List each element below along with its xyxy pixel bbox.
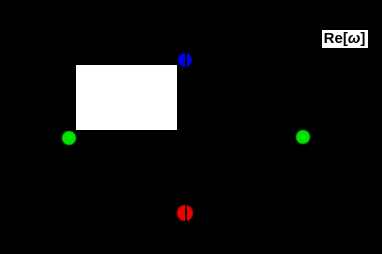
pole red (lower branch point) <box>177 205 193 221</box>
branch cut line (vertical black axis through blue and red poles) <box>185 0 187 254</box>
pole blue (upper branch point) <box>178 53 192 67</box>
axis label Re[omega] <box>322 30 368 48</box>
pole green left <box>62 131 76 145</box>
white region rectangle <box>76 65 177 130</box>
pole green right <box>296 130 310 144</box>
